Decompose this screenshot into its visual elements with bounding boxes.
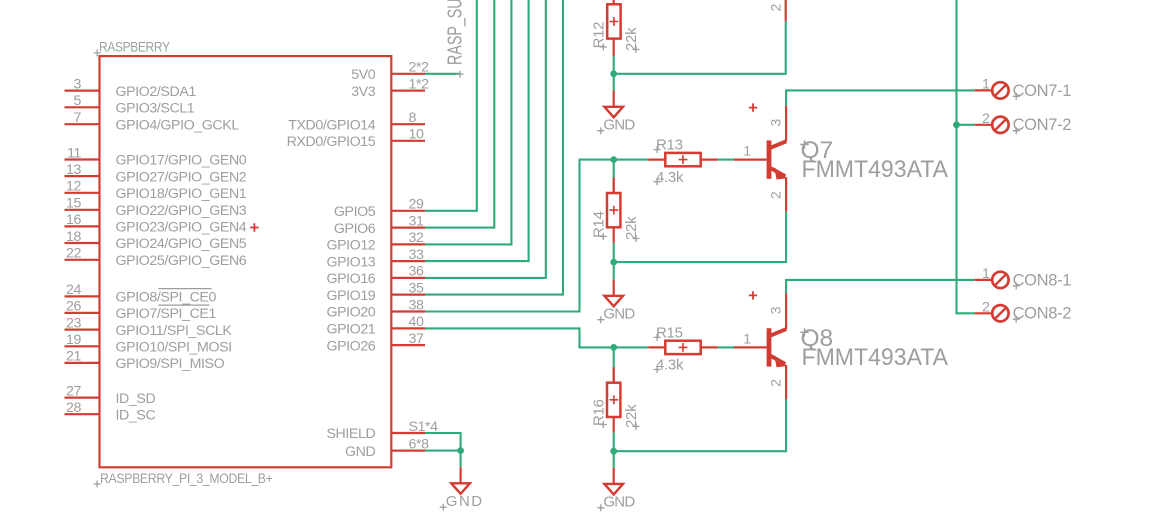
svg-text:24: 24 [66,282,81,298]
wire SHIELD to GND net [425,433,461,451]
svg-text:2: 2 [768,4,784,12]
svg-text:36: 36 [409,264,424,280]
svg-text:R15: R15 [656,325,683,342]
wire GND pin to junction [425,450,461,452]
resistor R12 22k [590,4,640,56]
svg-text:3: 3 [769,119,785,127]
wire GPIO pin y=210.8 to top edge [425,0,477,211]
svg-text:ID_SD: ID_SD [116,391,156,407]
svg-text:GPIO16: GPIO16 [326,271,375,287]
svg-text:GPIO9/SPI_MISO: GPIO9/SPI_MISO [116,356,225,372]
junction node R14/GND/Q7 emitter [610,259,617,266]
svg-text:FMMT493ATA: FMMT493ATA [802,156,949,183]
wire 5V0 to RASP_SUPPLY label [425,73,460,75]
svg-text:27: 27 [66,383,81,399]
pin 26 GPIO7/SPI_CE1 [65,299,217,322]
svg-text:2: 2 [982,299,990,315]
svg-text:22k: 22k [623,216,640,240]
resistor R13 4.3k [648,137,717,186]
wire R15 to Q8 base [718,346,734,348]
svg-text:38: 38 [409,297,424,313]
wire node down to R14 [613,160,615,193]
svg-text:3V3: 3V3 [351,84,376,100]
svg-text:GPIO2/SDA1: GPIO2/SDA1 [116,84,197,100]
pin 23 GPIO11/SPI_SCLK [65,315,233,338]
pin 10 RXD0/GPIO15 [287,127,425,150]
wire GPIO21 pin40 to R15 node [425,328,613,347]
pin 2*2 5V0 [351,60,429,83]
svg-text:4.3k: 4.3k [656,357,684,374]
pin 29 GPIO5 [334,197,425,220]
svg-text:13: 13 [66,162,81,178]
svg-text:CON7-2: CON7-2 [1013,116,1072,134]
ground GND below R14 [597,280,635,323]
pin 18 GPIO24/GPIO_GEN5 [65,229,247,252]
svg-text:1: 1 [982,266,990,282]
svg-text:GPIO23/GPIO_GEN4: GPIO23/GPIO_GEN4 [116,220,247,236]
svg-text:GND: GND [345,444,375,460]
svg-text:R12: R12 [590,22,607,49]
pin 8 TXD0/GPIO14 [288,110,425,133]
svg-text:28: 28 [66,400,81,416]
wire junction down [613,262,615,280]
resistor R15 4.3k [648,325,717,374]
pin 21 GPIO9/SPI_MISO [65,349,225,372]
wire junction to Q7 emitter [614,212,786,263]
svg-text:32: 32 [409,230,424,246]
svg-text:GPIO10/SPI_MOSI: GPIO10/SPI_MOSI [116,340,232,356]
wire junction to CON7-2 [957,124,975,126]
wire node to R15 [614,346,649,348]
connector pin CON7-1 [975,76,1072,99]
svg-text:GPIO6: GPIO6 [334,221,376,237]
svg-text:8: 8 [409,110,417,126]
svg-text:GPIO13: GPIO13 [326,254,375,270]
svg-text:GPIO21: GPIO21 [326,322,375,338]
svg-text:GPIO17/GPIO_GEN0: GPIO17/GPIO_GEN0 [116,153,247,169]
svg-text:R16: R16 [590,399,607,426]
pin 32 GPIO12 [326,230,425,253]
pin 37 GPIO26 [326,331,425,354]
svg-text:GPIO5: GPIO5 [334,204,376,220]
svg-text:4.3k: 4.3k [656,169,684,186]
transistor Q8 FMMT493ATA [734,291,949,399]
svg-text:GND: GND [603,305,635,322]
ground GND below R12 [597,91,635,134]
svg-text:11: 11 [67,145,81,161]
svg-text:10: 10 [409,127,424,143]
pin 40 GPIO21 [326,314,425,337]
svg-text:15: 15 [66,196,81,212]
wire supply return from top edge to CON8-2 [957,0,975,313]
pin 35 GPIO19 [326,280,425,303]
svg-text:GND: GND [446,493,482,510]
transistor Q7 FMMT493ATA [734,103,949,211]
svg-text:35: 35 [409,280,424,296]
svg-text:40: 40 [409,314,424,330]
wire junction to upper transistor emitter [614,21,786,74]
svg-text:31: 31 [409,213,424,229]
net label RASP_SUPPLY [444,0,467,78]
svg-text:GPIO25/GPIO_GEN6: GPIO25/GPIO_GEN6 [116,253,247,269]
svg-text:R13: R13 [656,137,683,154]
svg-text:22k: 22k [623,27,640,51]
svg-text:TXD0/GPIO14: TXD0/GPIO14 [288,117,376,133]
pin 16 GPIO23/GPIO_GEN4 [65,212,259,235]
pin 5 GPIO3/SCL1 [65,93,195,116]
pin 15 GPIO22/GPIO_GEN3 [65,196,247,219]
wire GPIO pin y=277.9 to top edge [425,0,546,278]
svg-text:2: 2 [769,379,785,387]
pin 11 GPIO17/GPIO_GEN0 [65,145,247,168]
wire GPIO pin y=227.6 to top edge [425,0,494,228]
svg-text:GPIO12: GPIO12 [326,238,375,254]
svg-text:22k: 22k [623,404,640,428]
wire junction down [613,74,615,91]
svg-text:SHIELD: SHIELD [326,426,375,442]
pin 36 GPIO16 [326,264,425,287]
svg-text:1: 1 [743,331,751,347]
IC U1 RASPBERRY name label [94,40,171,57]
svg-text:GPIO8/SPI_CE0: GPIO8/SPI_CE0 [116,290,217,306]
pin S1*4 SHIELD [326,419,438,442]
wire GPIO pin y=261.1 to top edge [425,0,529,261]
ground GND below R16 [597,468,635,511]
svg-text:3: 3 [74,76,82,92]
svg-text:29: 29 [409,197,424,213]
svg-text:GPIO7/SPI_CE1: GPIO7/SPI_CE1 [116,306,217,322]
svg-text:1*2: 1*2 [409,76,430,92]
svg-text:ID_SC: ID_SC [116,407,156,423]
connector pin CON8-1 [975,266,1072,289]
svg-text:GPIO11/SPI_SCLK: GPIO11/SPI_SCLK [116,323,233,339]
svg-text:16: 16 [66,212,81,228]
pin 12 GPIO18/GPIO_GEN1 [65,179,247,202]
wire R12 to junction [613,56,615,74]
wire node to R13 [614,159,649,161]
svg-text:CON8-2: CON8-2 [1013,305,1072,323]
svg-text:RASPBERRY_PI_3_MODEL_B+: RASPBERRY_PI_3_MODEL_B+ [100,471,273,487]
junction node R15/R16/GPIO21 [610,344,617,351]
svg-text:5: 5 [74,93,82,109]
svg-text:2: 2 [982,111,990,127]
svg-text:RXD0/GPIO15: RXD0/GPIO15 [287,134,376,150]
junction node R12/GND/Q emitter [610,70,617,77]
svg-text:33: 33 [409,247,424,263]
svg-text:GPIO20: GPIO20 [326,305,375,321]
wire from top edge into R12 [613,0,615,4]
svg-text:FMMT493ATA: FMMT493ATA [802,344,949,371]
svg-text:7: 7 [74,110,82,126]
wire R16 to emitter junction [613,433,615,452]
IC U1 value label RASPBERRY_PI_3_MODEL_B+ [94,471,273,488]
ground GND below RPi [440,467,483,510]
svg-text:GPIO22/GPIO_GEN3: GPIO22/GPIO_GEN3 [116,203,247,219]
resistor R16 22k [590,367,640,432]
pin 1*2 3V3 [351,76,429,99]
svg-text:GPIO26: GPIO26 [326,338,375,354]
wire junction down to GND symbol [460,451,462,468]
pin 7 GPIO4/GPIO_GCKL [65,110,240,133]
svg-text:GND: GND [603,494,635,511]
pin 28 ID_SC [65,400,156,423]
svg-text:26: 26 [66,299,81,315]
pin 13 GPIO27/GPIO_GEN2 [65,162,247,185]
pin 22 GPIO25/GPIO_GEN6 [65,246,247,269]
pin 27 ID_SD [65,383,156,406]
wire R13 to Q7 base [718,159,734,161]
svg-text:1: 1 [743,144,751,160]
connector pin CON8-2 [975,299,1072,322]
svg-text:19: 19 [66,332,81,348]
pin 2 of upper transistor (cut off) [768,0,785,21]
svg-text:GPIO24/GPIO_GEN5: GPIO24/GPIO_GEN5 [116,236,247,252]
wire R14 to emitter junction [613,243,615,262]
svg-text:21: 21 [66,349,81,365]
wire Q7 collector to CON7-1 [786,90,975,105]
wire GPIO20 pin38 to R13 node [425,160,613,312]
svg-text:23: 23 [66,315,81,331]
pin 6*8 GND [345,436,429,459]
pin 3 GPIO2/SDA1 [65,76,197,99]
svg-text:12: 12 [66,179,81,195]
svg-text:GPIO27/GPIO_GEN2: GPIO27/GPIO_GEN2 [116,169,247,185]
pin 33 GPIO13 [326,247,425,270]
svg-text:2: 2 [769,191,785,199]
wire Q8 collector to CON8-1 [786,280,975,294]
junction node at CON7-2 [953,121,960,128]
pin 38 GPIO20 [326,297,425,320]
resistor R14 22k [590,178,640,243]
svg-text:RASPBERRY: RASPBERRY [99,40,170,56]
svg-text:GND: GND [603,116,635,133]
svg-text:GPIO18/GPIO_GEN1: GPIO18/GPIO_GEN1 [116,186,247,202]
svg-text:GPIO3/SCL1: GPIO3/SCL1 [116,101,195,117]
svg-text:22: 22 [66,246,81,262]
svg-text:5V0: 5V0 [351,67,376,83]
svg-text:R14: R14 [590,211,607,238]
junction node R16/GND/Q8 emitter [610,448,617,455]
junction at RPi GND [457,447,464,454]
svg-text:CON8-1: CON8-1 [1013,271,1072,289]
svg-text:RASP_SUPPLY: RASP_SUPPLY [444,0,467,65]
pin 19 GPIO10/SPI_MOSI [65,332,232,355]
wire GPIO pin y=244.4 to top edge [425,0,511,244]
svg-text:GPIO4/GPIO_GCKL: GPIO4/GPIO_GCKL [116,117,240,133]
pin 31 GPIO6 [334,213,425,236]
wire junction down [613,451,615,468]
svg-text:GPIO19: GPIO19 [326,288,375,304]
svg-text:1: 1 [982,76,990,92]
svg-text:18: 18 [66,229,81,245]
wire node down to R16 [613,347,615,382]
junction node R13/R14/GPIO20 [610,156,617,163]
wire junction to Q8 emitter [614,399,786,451]
svg-text:CON7-1: CON7-1 [1013,82,1072,100]
wire GPIO pin y=294.6 to top edge [425,0,563,295]
connector pin CON7-2 [975,111,1072,134]
IC U1 RASPBERRY_PI_3_MODEL_B+ body [100,56,392,467]
svg-text:3: 3 [769,306,785,314]
pin 24 GPIO8/SPI_CE0 [65,282,217,305]
svg-text:37: 37 [409,331,424,347]
